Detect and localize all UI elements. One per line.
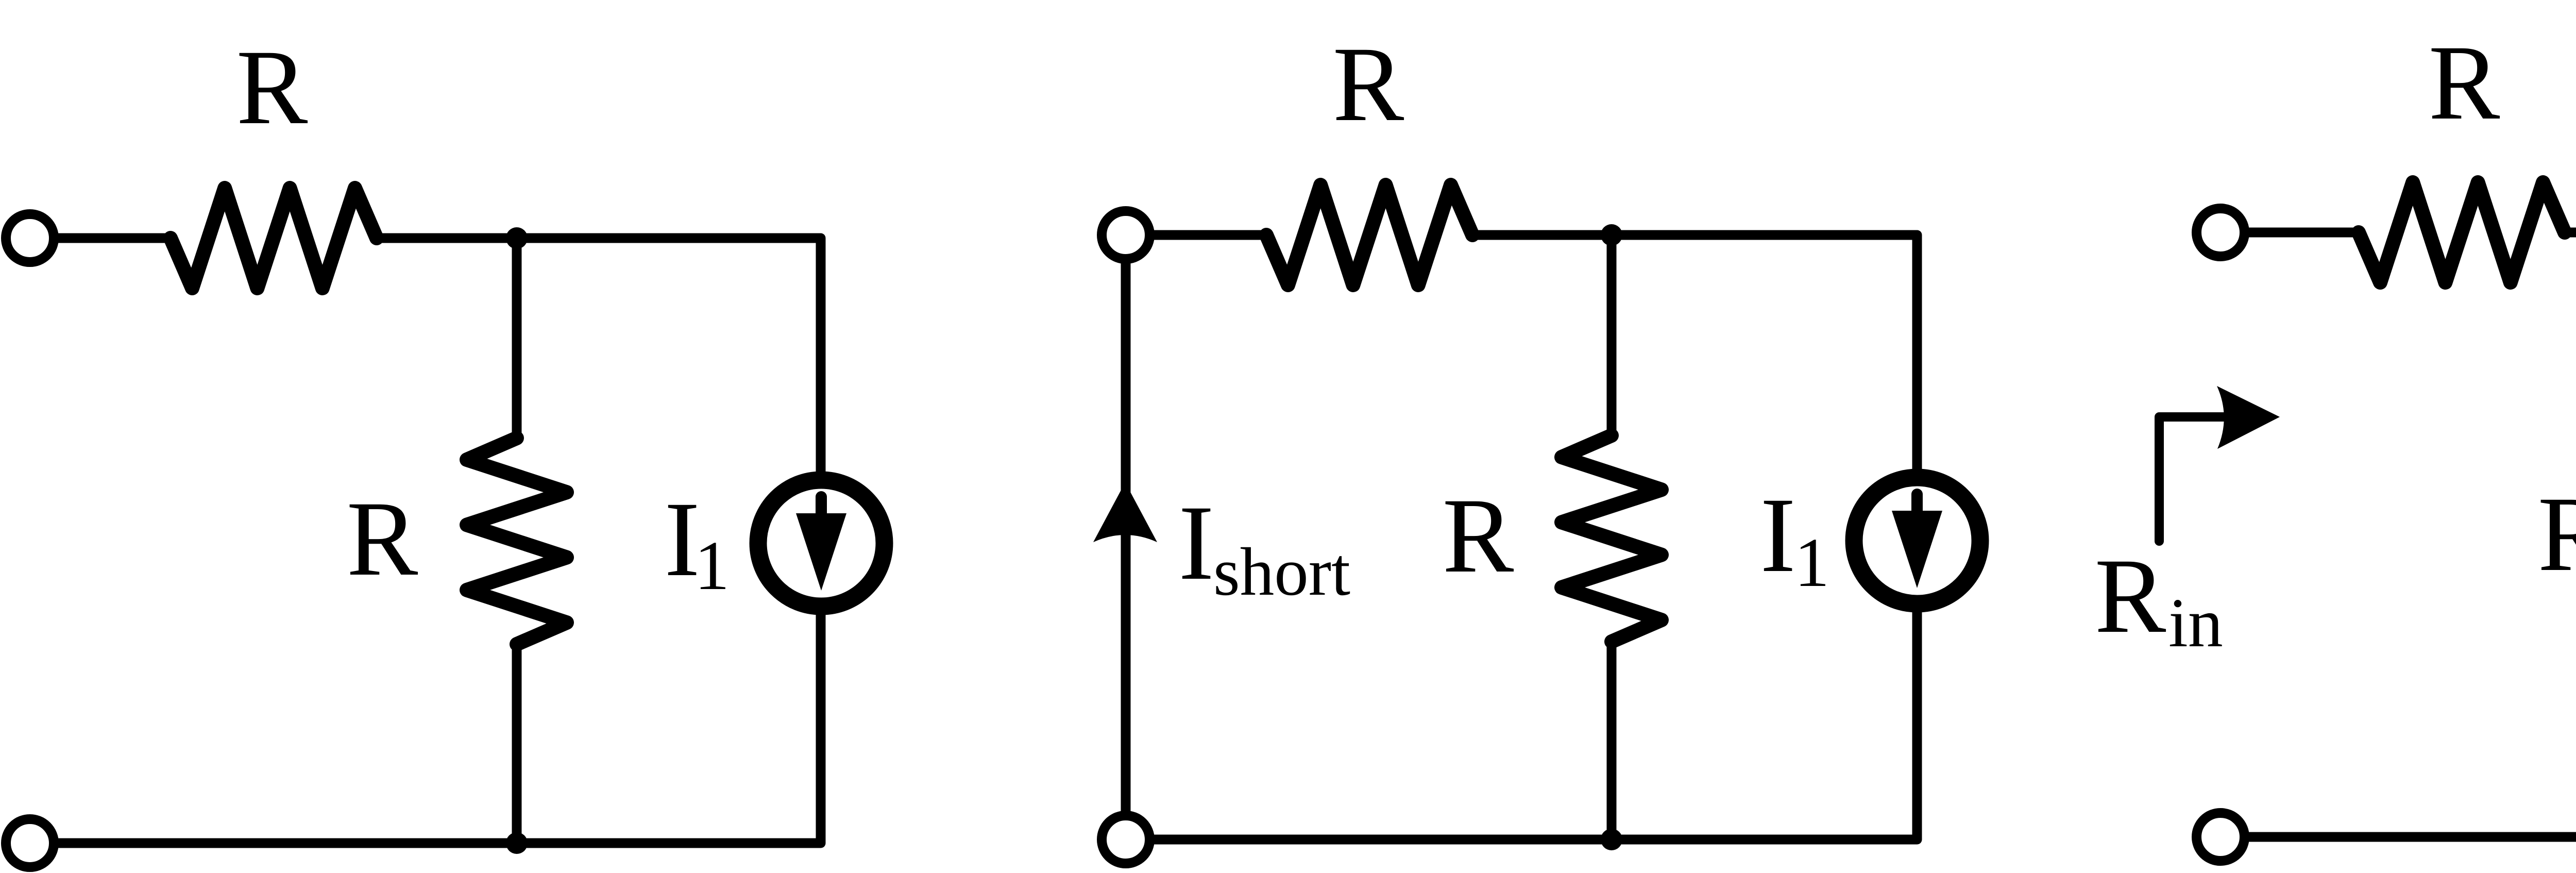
svg-text:R: R <box>2429 23 2500 142</box>
svg-text:I: I <box>1760 476 1795 594</box>
svg-text:I: I <box>1178 483 1214 602</box>
svg-text:R: R <box>1333 25 1404 143</box>
svg-text:short: short <box>1213 533 1350 610</box>
svg-text:1: 1 <box>694 527 730 605</box>
svg-text:1: 1 <box>1794 524 1829 601</box>
svg-text:R: R <box>2538 475 2576 593</box>
svg-text:R: R <box>1443 476 1514 595</box>
svg-text:in: in <box>2168 584 2223 662</box>
svg-text:R: R <box>236 28 308 146</box>
svg-text:R: R <box>347 479 418 598</box>
svg-text:R: R <box>2095 536 2166 655</box>
